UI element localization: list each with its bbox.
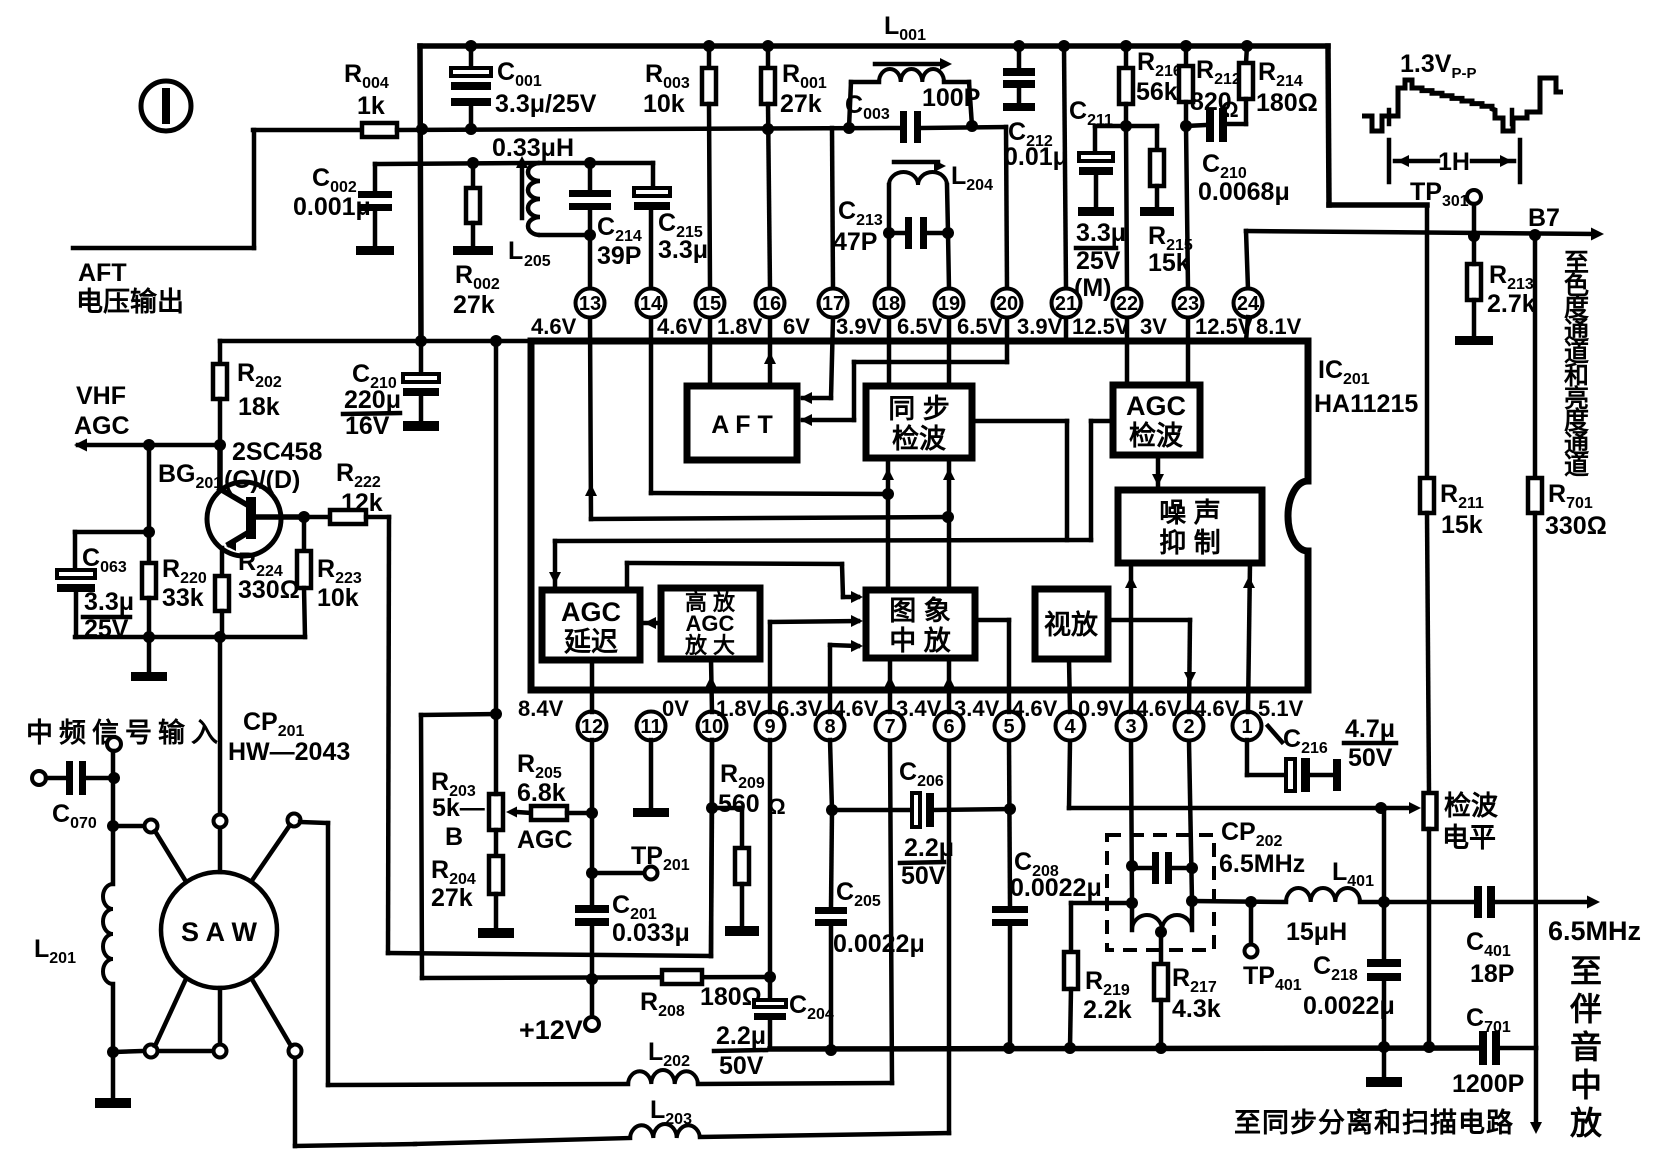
svg-text:电平: 电平: [1442, 823, 1496, 853]
svg-text:205: 205: [524, 253, 551, 270]
svg-text:抑 制: 抑 制: [1159, 528, 1221, 558]
svg-text:6.5MHz: 6.5MHz: [1219, 850, 1305, 878]
svg-text:17: 17: [822, 293, 844, 315]
svg-text:0.0022μ: 0.0022μ: [1010, 874, 1102, 902]
svg-text:0.9V: 0.9V: [1078, 696, 1124, 721]
svg-text:2SC458: 2SC458: [232, 438, 322, 466]
svg-text:15k: 15k: [1148, 249, 1190, 277]
IC pin 8: [816, 712, 845, 741]
ground C218 node: [1382, 1047, 1387, 1077]
waveform 1H dimension: [1387, 140, 1392, 182]
capacitor C204 2.2u/50V: [754, 1000, 786, 1007]
svg-text:27k: 27k: [431, 884, 473, 912]
circled 1 page marker: [141, 81, 191, 131]
wire +12V rail from R203 top: [421, 714, 496, 715]
potentiometer detection level 检波电平: [1424, 793, 1437, 829]
svg-text:放 大: 放 大: [684, 633, 735, 658]
IC pin 17: [819, 289, 848, 318]
wire pin20 lead to AFT input: [1005, 318, 1010, 362]
svg-text:23: 23: [1177, 293, 1199, 315]
wire video amp to pin4: [1069, 659, 1070, 712]
resistor R209 560ohm: [706, 802, 718, 814]
wire C213 tank to pins 18 19: [887, 233, 892, 289]
block video amp 视放: [1035, 589, 1108, 659]
resistor R004: [253, 128, 362, 133]
svg-text:6.5MHz: 6.5MHz: [1548, 916, 1641, 946]
wire video IF output to pin5: [975, 618, 1009, 623]
resistor R001 27k: [762, 40, 774, 52]
wire pin13 net to pin19: [591, 517, 948, 519]
svg-text:6.5V: 6.5V: [897, 314, 943, 339]
inductor L202: [328, 1084, 628, 1085]
ground emitter rail: [147, 637, 152, 672]
resistor R219 2.2k: [1071, 901, 1132, 906]
test point TP201: [586, 867, 598, 879]
block sync detector 同步检波: [866, 386, 972, 458]
filter CP202 6.5MHz dashed box: [1107, 835, 1214, 950]
resistor R214 180ohm: [1241, 40, 1253, 52]
svg-text:VHF: VHF: [76, 382, 126, 410]
wire pin7 lead down to L202: [890, 742, 892, 1083]
capacitor C214 39P: [540, 161, 653, 166]
svg-text:2: 2: [1183, 716, 1194, 738]
svg-text:6: 6: [943, 716, 954, 738]
wire pin10 lead down: [710, 740, 715, 808]
svg-text:220μ: 220μ: [344, 386, 401, 414]
svg-text:1H: 1H: [1438, 148, 1470, 176]
capacitor CP202 internal: [1132, 866, 1152, 871]
wire SAW right-top to L202: [326, 823, 331, 1085]
svg-text:道: 道: [1564, 451, 1589, 480]
IC pin 13: [576, 289, 605, 318]
IC pin 9: [756, 712, 785, 741]
IC pin 22: [1113, 289, 1142, 318]
wire R222 down to pin10 rail: [388, 517, 389, 953]
svg-text:4.6V: 4.6V: [1194, 696, 1240, 721]
svg-text:50V: 50V: [719, 1052, 764, 1080]
IC pin 2: [1175, 712, 1204, 741]
resistor R211 15k: [1420, 478, 1434, 513]
svg-text:1: 1: [1241, 716, 1252, 738]
IC pin 10: [698, 712, 727, 741]
svg-text:12k: 12k: [341, 489, 383, 517]
IC pin 16: [756, 289, 785, 318]
wire video amp output to pin2 with arrow: [1108, 618, 1190, 623]
top supply bus wire: [420, 43, 1328, 49]
capacitor C213 47P: [889, 231, 905, 236]
wire pin17 lead to AFT input: [831, 318, 833, 398]
svg-text:6.8k: 6.8k: [517, 779, 566, 807]
capacitor C070: [32, 771, 46, 785]
capacitor C215 3.3u: [651, 163, 656, 188]
svg-text:0V: 0V: [662, 696, 689, 721]
inductor L204: [894, 160, 938, 165]
wire pin24 to B7: [1246, 231, 1248, 289]
wire pin8 lead down: [830, 740, 832, 810]
svg-text:24: 24: [1237, 293, 1260, 315]
wire AGC det to noise suppressor arrow: [1156, 455, 1161, 490]
svg-text:至同步分离和扫描电路: 至同步分离和扫描电路: [1234, 1107, 1514, 1138]
svg-text:0.33μH: 0.33μH: [492, 134, 574, 162]
svg-text:3.3μ/25V: 3.3μ/25V: [495, 90, 597, 118]
svg-text:检波: 检波: [892, 423, 947, 454]
svg-text:8.4V: 8.4V: [518, 696, 564, 721]
svg-text:0.001μ: 0.001μ: [293, 193, 371, 221]
resistor R216 56k: [1120, 40, 1132, 52]
wire pin24 lead: [1246, 317, 1248, 341]
capacitor C210 220u/16V electrolytic: [419, 341, 424, 374]
svg-text:330Ω: 330Ω: [1545, 512, 1607, 540]
capacitor C701 1200P: [1479, 1031, 1487, 1065]
wire base bias rail: [147, 445, 152, 532]
capacitor C216 4.7u/50V: [1245, 740, 1250, 775]
svg-text:音: 音: [1570, 1029, 1602, 1065]
svg-text:39P: 39P: [597, 242, 641, 270]
svg-text:至: 至: [1570, 953, 1602, 989]
svg-text:图 象: 图 象: [889, 595, 951, 626]
wire AGC delay top rail: [555, 540, 1091, 541]
svg-text:3.3μ: 3.3μ: [1076, 219, 1126, 247]
block RF AGC amp 高放AGC放大: [661, 588, 760, 659]
svg-text:2.7k: 2.7k: [1487, 290, 1536, 318]
resistor R223 10k: [298, 511, 310, 523]
resistor R003 10k: [703, 40, 715, 52]
wire sync det outputs to pins 18/19 nets: [886, 458, 891, 590]
svg-text:延迟: 延迟: [563, 627, 618, 657]
wire pin13 lead into IC with arrow: [590, 318, 591, 519]
svg-text:16: 16: [759, 293, 781, 315]
svg-text:330Ω: 330Ω: [238, 576, 300, 604]
wire pin22 lead to AGC det: [1125, 318, 1130, 385]
svg-text:同 步: 同 步: [888, 394, 950, 424]
wire pin16 lead to AFT with arrow: [768, 318, 773, 386]
capacitor C063 3.3u/25V: [73, 532, 78, 570]
potentiometer R203 5k-B: [489, 794, 503, 830]
svg-text:中: 中: [1570, 1067, 1602, 1103]
wire CP202 right to TP401/L401: [1192, 901, 1286, 902]
svg-text:16V: 16V: [345, 412, 390, 440]
wire pin12 lead down: [590, 740, 595, 905]
svg-text:L: L: [508, 237, 523, 265]
svg-text:14: 14: [640, 293, 663, 315]
svg-text:3.3μ: 3.3μ: [84, 588, 134, 616]
resistor R204 27k: [489, 856, 503, 894]
svg-text:电压输出: 电压输出: [76, 286, 184, 317]
capacitor C002 0.001u: [373, 164, 378, 191]
svg-text:50V: 50V: [1348, 744, 1393, 772]
IC pin 3: [1117, 712, 1146, 741]
wire pin4 to detection level pot: [1069, 742, 1070, 808]
svg-text:5k—: 5k—: [432, 794, 485, 822]
wire top bus east corner to R211: [1328, 46, 1329, 205]
svg-text:8.1V: 8.1V: [1256, 314, 1302, 339]
svg-text:0.0022μ: 0.0022μ: [1303, 992, 1395, 1020]
svg-text:0.0068μ: 0.0068μ: [1198, 178, 1290, 206]
svg-text:7: 7: [884, 716, 895, 738]
wire pin19 lead to sync det: [947, 318, 952, 386]
wire sync det to AGC det (jog): [972, 419, 1067, 424]
resistor R205 6.8k: [531, 806, 567, 820]
svg-text:25V: 25V: [1076, 247, 1121, 275]
svg-text:放: 放: [1570, 1105, 1603, 1141]
resistor R208 180ohm: [662, 970, 702, 984]
svg-text:4.3k: 4.3k: [1172, 995, 1221, 1023]
svg-text:0.033μ: 0.033μ: [612, 919, 690, 947]
svg-text:180Ω: 180Ω: [1256, 89, 1318, 117]
wire pin11 to ground: [649, 740, 654, 808]
IC pin 15: [696, 289, 725, 318]
svg-text:4: 4: [1064, 716, 1076, 738]
wire pin23 lead to AGC det: [1186, 318, 1191, 385]
svg-text:中频信号输入: 中频信号输入: [26, 717, 224, 748]
svg-text:3: 3: [1125, 716, 1136, 738]
test point TP401: [1249, 902, 1254, 945]
resistor R222 12k: [311, 515, 330, 520]
svg-text:4.6V: 4.6V: [1136, 696, 1182, 721]
svg-text:噪 声: 噪 声: [1159, 498, 1221, 528]
svg-text:(C)/(D): (C)/(D): [224, 466, 300, 494]
svg-text:3V: 3V: [1140, 314, 1167, 339]
capacitor C218 0.0022u: [1382, 808, 1387, 959]
terminal +12V: [585, 1017, 599, 1031]
svg-text:21: 21: [1055, 293, 1077, 315]
IC pin 11: [637, 712, 666, 741]
svg-text:56k: 56k: [1136, 78, 1178, 106]
resistor R217 4.3k: [1159, 932, 1164, 964]
wire VHF AGC line: [78, 443, 220, 448]
wire video IF to pin7 arrow: [888, 658, 893, 712]
capacitor C201 0.033u: [575, 905, 609, 913]
resistor R220 33k: [147, 532, 152, 563]
svg-text:18P: 18P: [1470, 960, 1514, 988]
SAW terminals top: [113, 824, 144, 829]
wire R004 to AFT output: [252, 130, 257, 248]
IC pin 1: [1233, 712, 1262, 741]
wire pin2 into CP202: [1189, 742, 1192, 901]
resistor R224 330ohm: [215, 576, 229, 611]
svg-text:6.3V: 6.3V: [777, 696, 823, 721]
resistor R002 27k: [471, 163, 476, 188]
block noise suppressor 噪声抑制: [1118, 490, 1262, 563]
svg-text:33k: 33k: [162, 584, 204, 612]
wire C002/R002/L205 top rail: [375, 163, 537, 164]
svg-text:0.0022μ: 0.0022μ: [833, 930, 925, 958]
resistor R202 18k: [218, 341, 223, 364]
svg-text:9: 9: [764, 716, 775, 738]
wire pin9 to video IF input: [768, 622, 773, 712]
svg-text:2.2μ: 2.2μ: [904, 834, 954, 862]
svg-text:中 放: 中 放: [889, 625, 952, 656]
svg-text:12.5V: 12.5V: [1072, 314, 1130, 339]
wire pin17 lead up: [832, 128, 833, 289]
resistor R701 330ohm: [1533, 235, 1538, 478]
svg-text:AGC: AGC: [561, 597, 621, 627]
wire noise suppressor to pin1: [1248, 563, 1250, 712]
svg-text:AGC: AGC: [74, 412, 130, 440]
IC U IC201 HA11215 box: [531, 341, 1308, 690]
wire pin21 lead: [1064, 318, 1069, 341]
svg-text:4.6V: 4.6V: [657, 314, 703, 339]
svg-text:15μH: 15μH: [1286, 918, 1347, 946]
svg-text:18: 18: [878, 293, 900, 315]
svg-text:6.5V: 6.5V: [957, 314, 1003, 339]
svg-text:B: B: [445, 823, 463, 851]
inductor L201: [107, 820, 119, 832]
IC pin 5: [995, 712, 1024, 741]
IC pin 4: [1056, 712, 1085, 741]
svg-text:HW—2043: HW—2043: [228, 738, 350, 766]
capacitor C208 0.0022u: [1009, 742, 1010, 906]
svg-text:1k: 1k: [357, 92, 385, 120]
svg-text:100P: 100P: [922, 84, 980, 112]
svg-text:50V: 50V: [901, 862, 946, 890]
resistor R213 2.7k: [1467, 264, 1481, 300]
svg-text:10k: 10k: [317, 584, 359, 612]
svg-text:15k: 15k: [1441, 511, 1483, 539]
wire pin14 lead into IC: [649, 318, 654, 493]
svg-text:3.4V: 3.4V: [896, 696, 942, 721]
svg-text:AGC: AGC: [1126, 391, 1186, 421]
wire noise suppressor to pin3: [1129, 563, 1134, 712]
svg-text:6V: 6V: [783, 314, 810, 339]
IC pin 18: [875, 289, 904, 318]
svg-text:1.8V: 1.8V: [716, 696, 762, 721]
IC pin 12: [578, 712, 607, 741]
svg-text:560: 560: [718, 790, 760, 818]
svg-text:B7: B7: [1528, 204, 1560, 232]
block AGC detector AGC检波: [1113, 385, 1200, 455]
wire RF AGC amp to AGC delay arrow: [640, 621, 661, 626]
svg-text:20: 20: [996, 293, 1018, 315]
resistor R212 820: [1180, 40, 1192, 52]
wire tank to pin 20: [1006, 127, 1007, 289]
wire pin6 lead down to L203: [947, 742, 952, 1133]
capacitor C210 0.0068u: [1186, 125, 1206, 126]
svg-text:+12V: +12V: [519, 1015, 583, 1045]
wire x496 from rail down to R203: [494, 341, 499, 714]
svg-text:5.1V: 5.1V: [1258, 696, 1304, 721]
svg-text:19: 19: [938, 293, 960, 315]
terminal IF input: [107, 737, 121, 751]
IC pin 23: [1174, 289, 1203, 318]
inductor L203: [630, 1124, 700, 1138]
IC pin 6: [935, 712, 964, 741]
wire pin 21 lead: [1058, 40, 1070, 52]
svg-text:47P: 47P: [833, 228, 877, 256]
inductor L401 15uH: [1286, 888, 1360, 902]
svg-text:4.6V: 4.6V: [833, 696, 879, 721]
svg-text:HA11215: HA11215: [1314, 390, 1418, 418]
wire pin9 lead down through C204: [768, 740, 773, 1000]
capacitor C205 0.0022u: [831, 810, 832, 907]
svg-text:4.6V: 4.6V: [1012, 696, 1058, 721]
wire pin18 lead to sync det: [887, 318, 892, 386]
IC pin 14: [637, 289, 666, 318]
svg-text:AGC: AGC: [517, 826, 573, 854]
capacitor C001 3.3u/25V: [469, 46, 474, 68]
svg-text:2.2μ: 2.2μ: [716, 1022, 766, 1050]
wire pin15 lead to AFT: [708, 318, 713, 386]
capacitor C206 2.2u/50V: [832, 808, 912, 813]
svg-text:22: 22: [1116, 293, 1138, 315]
wire emitter bottom rail: [75, 635, 305, 640]
inductor CP202 internal coil: [1132, 915, 1192, 930]
wire pin8 to video IF input: [828, 645, 833, 712]
resistor R215 15k: [1126, 124, 1157, 129]
IC pin 19: [935, 289, 964, 318]
wire AGC delay output to video IF: [625, 563, 630, 590]
block AFT: [687, 386, 797, 460]
wire pin3 into CP202: [1131, 742, 1132, 903]
IC pin 24: [1234, 289, 1263, 318]
wire R202 collector rail to IC: [220, 339, 531, 344]
svg-text:27k: 27k: [453, 291, 495, 319]
svg-text:检波: 检波: [1129, 420, 1184, 451]
svg-text:3.3μ: 3.3μ: [658, 236, 708, 264]
wire SAW right-bottom to L203: [293, 1058, 298, 1146]
block video IF 图象中放: [866, 590, 975, 658]
wire bus2 R004 to pin20 corner: [397, 128, 900, 130]
svg-text:A F T: A F T: [711, 411, 773, 439]
svg-text:15: 15: [699, 293, 721, 315]
svg-text:AFT: AFT: [78, 259, 127, 287]
svg-text:1200P: 1200P: [1452, 1070, 1524, 1098]
wire AGC delay to pin12: [590, 660, 595, 712]
capacitor C401 18P: [1474, 886, 1482, 918]
IC pin 21: [1052, 289, 1081, 318]
IC pin 20: [993, 289, 1022, 318]
IC pin 7: [876, 712, 905, 741]
wire video IF to pin6 arrow: [947, 658, 952, 712]
svg-text:3.9V: 3.9V: [1017, 314, 1063, 339]
svg-text:10k: 10k: [643, 90, 685, 118]
SAW terminals bottom: [145, 1045, 158, 1058]
svg-text:伴: 伴: [1569, 991, 1602, 1027]
svg-text:18k: 18k: [238, 393, 280, 421]
svg-text:4.7μ: 4.7μ: [1345, 715, 1395, 743]
svg-text:12: 12: [581, 716, 603, 738]
svg-text:1.8V: 1.8V: [717, 314, 763, 339]
svg-text:2.2k: 2.2k: [1083, 996, 1132, 1024]
svg-text:4.6V: 4.6V: [531, 314, 577, 339]
svg-text:11: 11: [640, 716, 661, 738]
svg-text:12.5V: 12.5V: [1195, 314, 1253, 339]
svg-text:27k: 27k: [780, 90, 822, 118]
capacitor C003 100P: [900, 111, 907, 143]
block AGC delay AGC延迟: [542, 590, 640, 660]
wire RF AGC amp to pin10 with arrow: [711, 659, 712, 712]
svg-text:检波: 检波: [1444, 790, 1499, 821]
wire R701 line to sync separator: [1534, 1048, 1539, 1124]
wire top bus west end corner down: [420, 46, 421, 341]
svg-text:3.4V: 3.4V: [954, 696, 1000, 721]
svg-text:3.9V: 3.9V: [836, 314, 882, 339]
capacitor C212 0.01u: [1013, 40, 1025, 52]
svg-text:视放: 视放: [1044, 609, 1099, 640]
svg-text:0.01μ: 0.01μ: [1004, 143, 1068, 171]
wire L205 bottom to pin13: [540, 233, 590, 238]
svg-text:S A W: S A W: [181, 917, 258, 947]
svg-text:13: 13: [579, 293, 601, 315]
wire pin14 net to pin18: [651, 493, 888, 494]
wire ground bus: [770, 1048, 1479, 1049]
